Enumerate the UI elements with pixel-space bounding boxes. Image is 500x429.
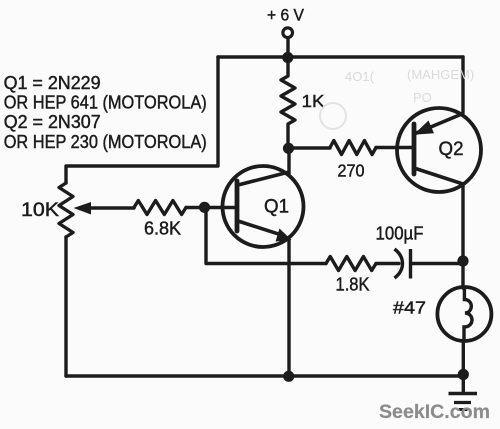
svg-text:PO: PO [413,90,432,105]
wire feedback from base node down and right [206,208,326,264]
svg-text:#47: #47 [393,298,426,318]
transistor Q1 emitter line [238,221,281,235]
svg-text:270: 270 [338,161,365,181]
wire bottom rail [66,374,463,377]
resistor R 270 zigzag [330,141,376,155]
svg-text:(MAHGEM): (MAHGEM) [407,67,474,82]
potentiometer wiper arrow [74,202,92,215]
svg-text:1K: 1K [302,91,325,111]
resistor R 1.8K zigzag [326,257,376,271]
svg-text:100µF: 100µF [376,224,424,244]
junction node +6V on top rail [282,52,293,63]
wire right rail mid [461,184,464,288]
svg-text:Q2 = 2N307: Q2 = 2N307 [4,112,101,132]
wire pot bottom drop [64,237,67,376]
junction node Q1 base [199,202,210,213]
junction node emitter/bottom rail [283,371,294,382]
transistor Q2 collector line [414,168,463,184]
capacitor C 100uF straight plate [409,249,412,279]
potentiometer R 10K zigzag [59,183,73,237]
wire 1.8K to capacitor [376,262,399,265]
transistor Q1 emitter arrow [276,229,292,242]
svg-text:1.8K: 1.8K [336,275,370,295]
transistor Q2 base bar [412,124,417,174]
svg-text:SeekIC.com: SeekIC.com [379,402,490,423]
ground bar 2 [454,401,471,404]
transistor Q2 emitter line [415,114,464,134]
transistor Q1 collector line [238,172,289,185]
wire Q1 emitter drop [287,240,290,376]
svg-text:OR HEP 641 (MOTOROLA): OR HEP 641 (MOTOROLA) [4,93,207,113]
terminal +6V stub [286,38,289,57]
wire lamp bottom to ground [462,341,465,392]
bleed-through ghost circle [320,103,346,129]
resistor R 6.8K zigzag [134,201,186,215]
svg-text:10K: 10K [21,200,59,221]
resistor R 1K zigzag [281,57,295,148]
terminal +6V circle [283,28,293,38]
wire pot wiper [89,206,134,209]
wire 270 to Q2 base [376,146,413,149]
svg-text:Q1: Q1 [264,197,289,218]
wire right rail upper [461,57,464,113]
wire Q1 collector riser [287,148,290,174]
lamp filament [464,288,472,341]
svg-text:4O1(: 4O1( [345,69,375,84]
svg-text:6.8K: 6.8K [144,219,181,239]
svg-text:OR HEP 230 (MOTOROLA): OR HEP 230 (MOTOROLA) [4,132,207,152]
wire top rail [218,55,463,58]
wire left drop from top rail [66,57,218,183]
capacitor C 100uF curved plate [395,249,403,278]
transistor Q1 circle [223,166,304,247]
ground bar 1 [449,392,478,395]
transistor Q2 circle [397,108,481,192]
svg-text:+ 6 V: + 6 V [267,7,304,25]
transistor Q1 base bar [235,181,240,231]
wire capacitor to output node [411,262,463,265]
junction node lamp/ground [458,369,469,380]
svg-text:Q1 = 2N229: Q1 = 2N229 [4,73,101,93]
wire 1K bottom to 270 [288,146,330,149]
transistor Q2 emitter arrow [414,121,435,135]
junction node 1K/270/Q1 collector [283,143,294,154]
ground bar 3 [459,408,468,411]
lamp #47 circle [437,287,491,341]
wire 6.8K to Q1 base [186,206,236,209]
junction node output cap/rail [457,255,468,266]
svg-text:Q2: Q2 [439,139,464,160]
